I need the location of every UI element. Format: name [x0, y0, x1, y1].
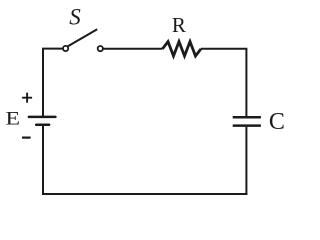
label C: [269, 109, 285, 135]
battery minus sign: [22, 137, 31, 139]
label E: [5, 108, 20, 129]
wire bottom segment: [42, 193, 247, 195]
wire resistor to top-right corner down to capacitor: [201, 49, 246, 116]
capacitor C bottom plate: [233, 124, 261, 127]
battery E short negative plate: [36, 124, 49, 127]
svg-text:S: S: [69, 5, 81, 30]
wire capacitor to bottom-right corner: [245, 127, 247, 195]
svg-text:R: R: [172, 13, 186, 37]
resistor R zigzag: [163, 42, 202, 56]
switch S left contact circle: [63, 46, 68, 51]
label S: [69, 5, 81, 30]
switch S blade (open arm): [68, 29, 98, 46]
capacitor C top plate: [233, 116, 261, 119]
wire switch to resistor: [103, 48, 162, 50]
switch S right contact circle: [98, 46, 103, 51]
svg-text:E: E: [5, 108, 20, 129]
wire top-left segment (corner to switch left contact): [43, 49, 63, 116]
label R: [172, 13, 186, 37]
wire battery to bottom-left corner: [42, 126, 44, 195]
battery plus sign: [22, 93, 32, 103]
svg-text:C: C: [269, 109, 285, 135]
battery E long positive plate: [29, 116, 56, 119]
